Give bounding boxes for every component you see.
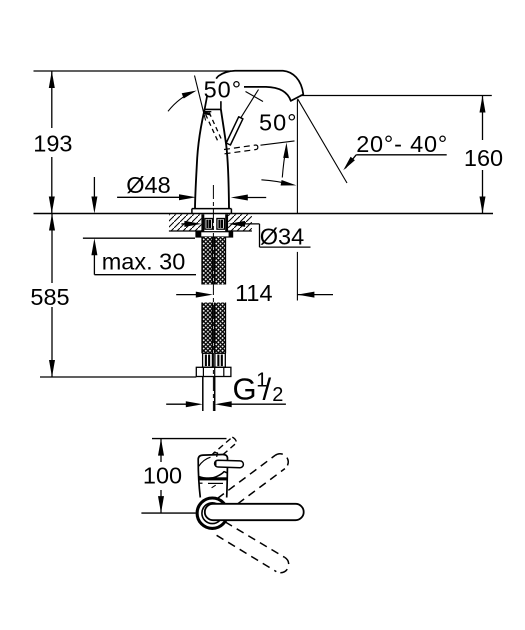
countertop deck line [34,213,494,215]
svg-text:max. 30: max. 30 [102,249,186,275]
top view: detail dashes below band [200,482,203,484]
label 20-40 deg with leader [343,155,446,170]
flexible hose left upper segment [202,237,213,285]
svg-text:2: 2 [272,384,283,406]
top view: ghost lever dashed (rotated position) [203,437,236,468]
50 deg swing leader right-arrow [261,180,290,184]
mounting washer [196,232,233,237]
top reference line (overall height datum) [34,70,232,72]
handle ghost axis extension line [261,141,295,145]
top view: spout (solid position) [205,504,304,520]
svg-text:Ø48: Ø48 [126,172,170,198]
leader cross tick [246,92,264,102]
shank inner fitting right [217,219,225,230]
faucet spout outline [205,96,208,110]
faucet body right edge [221,109,229,208]
svg-text:160: 160 [464,145,503,171]
flexible hose right upper segment [215,237,226,285]
deck underside line left [169,230,202,232]
water stream angle line [298,99,347,183]
top view: lever base tick [215,461,217,467]
thread label G 1/2 [233,370,284,407]
svg-text:G: G [233,372,257,407]
spout outlet height reference line (160 datum) [300,95,492,97]
svg-text:114: 114 [235,280,272,306]
curved leader arrow for 50 deg handle angle [168,92,194,112]
svg-text:/: / [263,372,272,407]
svg-text:20°- 40°: 20°- 40° [356,131,448,157]
shank inner fitting left [205,219,213,230]
threaded shank walls [201,214,204,231]
dimension Ø48 with leader arrows [117,194,266,200]
svg-text:585: 585 [30,284,69,310]
top view: lower reference line [141,512,195,514]
hex connection nuts [196,367,231,376]
centerline of faucet [212,185,214,411]
vertical projection line below spout outlet [296,100,298,214]
hose fitting collar right [215,353,225,367]
top view: faucet body [198,454,227,497]
dimension 114 (spout reach) [176,292,333,298]
deck hatching left [169,214,201,230]
ghost lever dashed (alternate position inside body) [205,113,222,142]
handle angle reference line (body axis extension) [195,76,206,121]
dimension 585 vertical line with arrows [49,214,55,378]
spout base right edge [220,101,222,109]
50 deg swing leader up-arrow [282,149,286,178]
G 1/2 dimension arrows [166,401,286,407]
handle lever (50 deg position) [226,117,243,145]
top view: cartridge dome curve [198,472,227,479]
top view: lever pivot notch [213,452,218,456]
svg-text:Ø34: Ø34 [260,224,304,250]
dimension 160 vertical line with arrows [480,96,486,214]
deck underside line right [228,230,252,232]
top view: ghost spout lower (dashed) [217,522,289,573]
top view: cartridge ring band [198,477,227,480]
hose fitting collar left [203,353,213,367]
dimension 193 vertical line with arrows [49,71,55,214]
faucet body (tapered) left edge [195,109,205,208]
top view: dome inner curve [199,457,211,466]
flexible hose right lower segment [215,303,226,354]
top view: spout base inner circle [202,503,223,524]
585 bottom reference line (hose end datum) [40,376,196,378]
dashed handle-horizontal ghost capsule [224,145,258,154]
base flange [192,208,232,210]
lever axis leader line [241,90,259,118]
top view: upper reference line [152,438,227,440]
body neck top line [204,108,221,110]
G 1/2 tail pipe [202,377,204,412]
dimension 100 vertical line with arrows [158,439,164,513]
dimension Ø34 arrows at shank [181,221,310,247]
max.30 dimension arrows [83,177,196,275]
svg-text:50°: 50° [259,110,298,136]
top view: lever handle knob [215,460,244,468]
svg-text:50°: 50° [204,77,243,103]
neck inner tick [205,111,212,113]
flexible hose left lower segment [202,303,213,354]
top view: ghost spout upper (dashed) [218,454,289,504]
deck hatching right [228,214,252,230]
top view: spout base ring (bold) [197,498,227,528]
svg-text:193: 193 [33,131,72,157]
svg-text:100: 100 [143,463,182,489]
